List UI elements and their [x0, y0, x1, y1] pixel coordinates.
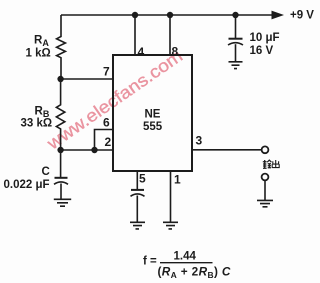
svg-text:1.44: 1.44 [174, 251, 197, 263]
capacitor 10uF lead [235, 15, 237, 38]
svg-text:1 kΩ: 1 kΩ [26, 48, 51, 60]
node at RA/RB junction [57, 76, 63, 82]
capacitor C plates [55, 177, 68, 179]
svg-text:f =: f = [143, 256, 157, 268]
ground below pin5 cap [130, 222, 145, 229]
capacitor 10uF plates [229, 38, 243, 40]
capacitor C lead [60, 150, 62, 177]
resistor RA [57, 15, 66, 79]
svg-text:C: C [42, 166, 50, 178]
capacitor 10uF bottom lead [235, 44, 237, 61]
ground below pin 1 [163, 222, 178, 229]
svg-text:1: 1 [174, 173, 181, 187]
svg-text:33 kΩ: 33 kΩ [21, 118, 53, 130]
capacitor pin5 bottom lead [136, 196, 138, 222]
svg-text:5: 5 [139, 172, 146, 186]
node pin 4 rail [132, 12, 138, 18]
svg-text:6: 6 [103, 116, 110, 130]
wire pin 4 [134, 15, 136, 55]
ground below C [54, 199, 71, 206]
svg-text:7: 7 [103, 65, 110, 79]
label shuchu (output) glyph shu [263, 160, 272, 168]
svg-text:10 μF: 10 μF [250, 32, 280, 44]
formula fraction bar [160, 262, 213, 264]
label shuchu (output) glyph chu [272, 160, 279, 168]
op IC NE555 box [113, 55, 192, 171]
node pin6 branch [91, 147, 97, 153]
wire terminal to ground [264, 180, 266, 200]
svg-text:8: 8 [172, 45, 179, 59]
wire pin 1 [170, 171, 172, 222]
wire pin 3 output [192, 149, 261, 151]
power arrow +9V [272, 11, 285, 20]
svg-text:3: 3 [196, 134, 203, 148]
ground below output [257, 200, 273, 206]
wire pin 8 [169, 15, 171, 55]
svg-text:(RA + 2RB) C: (RA + 2RB) C [158, 265, 231, 281]
wire pin 5 [136, 171, 138, 189]
node RB/C/pin2 [57, 147, 63, 153]
capacitor C bottom lead [60, 184, 62, 199]
ground below 10uF [229, 62, 243, 69]
capacitor pin5 plates [131, 189, 144, 191]
svg-text:+9 V: +9 V [290, 10, 314, 22]
node pin 8 rail [167, 12, 173, 18]
svg-text:555: 555 [143, 121, 163, 133]
svg-text:4: 4 [138, 45, 145, 59]
svg-text:16 V: 16 V [250, 45, 274, 57]
wire pin 6 [95, 130, 114, 151]
svg-text:0.022 μF: 0.022 μF [4, 179, 50, 191]
wire +9V top rail [61, 14, 272, 16]
output terminal top [262, 146, 269, 153]
node bypass cap rail [232, 12, 238, 18]
wire pin 7 [61, 78, 113, 80]
svg-text:NE: NE [145, 109, 161, 121]
svg-text:2: 2 [105, 135, 112, 149]
resistor RB [56, 79, 64, 150]
wire pin 2 [61, 149, 113, 151]
output terminal bottom [262, 174, 269, 181]
